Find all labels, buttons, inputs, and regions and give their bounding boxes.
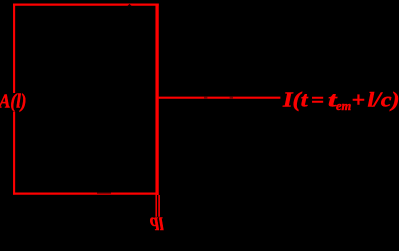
wire: left edge upper segment (13, 4, 15, 93)
dim joint on lead at x≈205 (204, 97, 207, 99)
svg-text:A(l): A(l) (0, 91, 27, 112)
arrowhead notch on top edge (127, 4, 132, 6)
wire: feed line left conductor (155, 195, 157, 217)
wire: bottom edge of loop (13, 193, 159, 195)
wire: left edge lower segment (13, 112, 15, 195)
wire: top edge of loop (13, 3, 159, 5)
wire: horizontal lead to current label (159, 97, 281, 99)
wire: feed line right conductor (158, 195, 160, 217)
wire: right edge (thick) (155, 4, 158, 196)
arrowhead notch on bottom edge (97, 192, 111, 193)
dim joint on lead at x≈231 (230, 97, 233, 99)
svg-text:dl: dl (150, 213, 164, 233)
